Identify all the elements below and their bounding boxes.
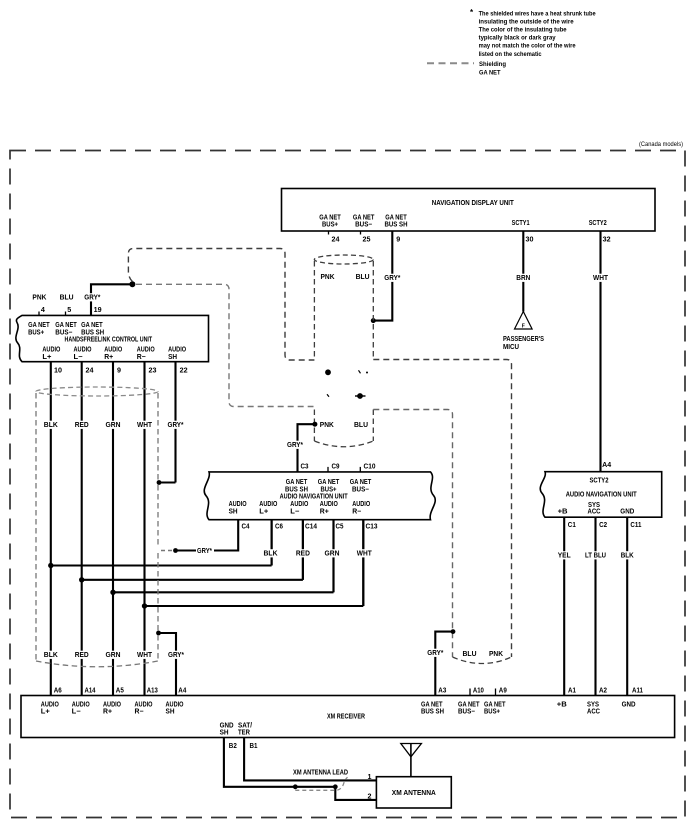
- svg-text:GA NET: GA NET: [350, 479, 372, 486]
- svg-text:TER: TER: [238, 729, 250, 736]
- svg-text:BUS+: BUS+: [484, 708, 500, 715]
- svg-text:GRN: GRN: [106, 422, 121, 429]
- svg-text:25: 25: [363, 237, 371, 244]
- svg-text:BLU: BLU: [463, 651, 477, 658]
- svg-text:L+: L+: [42, 354, 51, 361]
- svg-text:Shielding: Shielding: [479, 61, 506, 68]
- svg-text:C2: C2: [599, 522, 607, 529]
- svg-text:GA NET: GA NET: [28, 322, 50, 329]
- svg-text:AUDIO: AUDIO: [72, 701, 90, 708]
- svg-text:AUDIO: AUDIO: [259, 501, 277, 508]
- svg-text:AUDIO: AUDIO: [42, 346, 60, 353]
- svg-text:R−: R−: [352, 508, 361, 515]
- svg-text:5: 5: [67, 307, 71, 314]
- svg-text:C11: C11: [630, 522, 641, 529]
- svg-text:AUDIO: AUDIO: [168, 346, 186, 353]
- svg-text:A13: A13: [147, 688, 158, 695]
- svg-text:A14: A14: [85, 688, 96, 695]
- svg-text:SCTY2: SCTY2: [590, 477, 609, 484]
- svg-text:BUS−: BUS−: [352, 486, 369, 493]
- svg-text:L−: L−: [74, 354, 83, 361]
- svg-text:R−: R−: [135, 708, 144, 715]
- svg-text:GRY*: GRY*: [84, 295, 100, 302]
- svg-text:GA NET: GA NET: [479, 69, 501, 76]
- svg-text:32: 32: [603, 237, 611, 244]
- svg-text:BUS SH: BUS SH: [81, 330, 104, 337]
- svg-text:BUS+: BUS+: [28, 330, 44, 337]
- svg-text:AUDIO: AUDIO: [166, 701, 184, 708]
- svg-text:A6: A6: [54, 688, 62, 695]
- svg-text:1: 1: [368, 774, 372, 781]
- svg-text:GA NET: GA NET: [55, 322, 77, 329]
- svg-text:GRY*: GRY*: [168, 652, 184, 659]
- svg-text:AUDIO: AUDIO: [229, 501, 247, 508]
- svg-text:A11: A11: [632, 688, 643, 695]
- svg-text:AUDIO: AUDIO: [104, 346, 122, 353]
- svg-text:XM ANTENNA: XM ANTENNA: [392, 790, 436, 797]
- svg-text:AUDIO: AUDIO: [137, 346, 155, 353]
- svg-text:BUS+: BUS+: [321, 486, 337, 493]
- svg-text:AUDIO: AUDIO: [135, 701, 153, 708]
- svg-text:AUDIO: AUDIO: [352, 501, 370, 508]
- svg-text:30: 30: [526, 237, 534, 244]
- svg-text:SH: SH: [229, 508, 238, 515]
- svg-text:A4: A4: [178, 688, 186, 695]
- svg-text:GA NET: GA NET: [286, 479, 308, 486]
- svg-text:BLK: BLK: [44, 422, 58, 429]
- svg-text:RED: RED: [296, 551, 310, 558]
- svg-text:GND: GND: [622, 701, 636, 708]
- svg-text:GRY*: GRY*: [427, 650, 443, 657]
- svg-text:24: 24: [86, 368, 94, 375]
- svg-text:ACC: ACC: [588, 509, 601, 516]
- svg-text:C13: C13: [366, 524, 378, 531]
- svg-text:A2: A2: [599, 688, 607, 695]
- svg-text:PNK: PNK: [32, 295, 46, 302]
- svg-text:+B: +B: [557, 701, 567, 708]
- svg-text:A4: A4: [602, 462, 611, 469]
- svg-text:BUS+: BUS+: [322, 222, 338, 229]
- svg-text:L+: L+: [259, 508, 268, 515]
- svg-text:A10: A10: [473, 688, 484, 695]
- svg-text:SH: SH: [166, 708, 175, 715]
- svg-text:PNK: PNK: [489, 651, 503, 658]
- svg-text:9: 9: [117, 368, 121, 375]
- svg-text:C5: C5: [336, 524, 344, 531]
- svg-text:C10: C10: [364, 464, 376, 471]
- svg-text:BUS SH: BUS SH: [285, 486, 308, 493]
- svg-text:C6: C6: [275, 524, 283, 531]
- svg-text:L−: L−: [290, 508, 299, 515]
- svg-text:YEL: YEL: [558, 553, 572, 560]
- svg-text:C3: C3: [301, 464, 309, 471]
- svg-text:AUDIO: AUDIO: [320, 501, 338, 508]
- svg-text:C9: C9: [332, 464, 340, 471]
- svg-text:listed on the schematic: listed on the schematic: [479, 51, 542, 58]
- svg-text:A3: A3: [438, 688, 446, 695]
- svg-text:BRN: BRN: [516, 275, 530, 282]
- svg-text:GRY*: GRY*: [384, 275, 400, 282]
- svg-text:2: 2: [368, 794, 372, 801]
- svg-text:may not match the color of the: may not match the color of the wire: [479, 43, 576, 50]
- svg-text:L+: L+: [41, 708, 50, 715]
- svg-text:The shielded wires have a heat: The shielded wires have a heat shrunk tu…: [479, 11, 596, 18]
- svg-text:typically black or dark gray: typically black or dark gray: [479, 35, 556, 42]
- svg-text:GA NET: GA NET: [353, 215, 375, 222]
- svg-text:A1: A1: [568, 688, 576, 695]
- svg-text:The color of the insulating tu: The color of the insulating tube: [479, 27, 567, 34]
- svg-text:GND: GND: [620, 509, 634, 516]
- svg-text:SYS: SYS: [587, 701, 599, 708]
- svg-text:AUDIO: AUDIO: [41, 701, 59, 708]
- svg-text:HANDSFREELINK CONTROL UNIT: HANDSFREELINK CONTROL UNIT: [65, 337, 153, 344]
- svg-text:NAVIGATION DISPLAY UNIT: NAVIGATION DISPLAY UNIT: [432, 200, 515, 207]
- svg-text:R+: R+: [103, 708, 112, 715]
- svg-text:AUDIO NAVIGATION UNIT: AUDIO NAVIGATION UNIT: [280, 494, 349, 501]
- svg-text:GA NET: GA NET: [81, 322, 103, 329]
- svg-text:GA NET: GA NET: [318, 479, 340, 486]
- svg-text:GA NET: GA NET: [319, 215, 341, 222]
- svg-text:PNK: PNK: [320, 422, 334, 429]
- svg-text:F: F: [522, 324, 525, 330]
- svg-text:+B: +B: [558, 509, 568, 516]
- svg-text:AUDIO: AUDIO: [103, 701, 121, 708]
- svg-text:GA NET: GA NET: [458, 701, 480, 708]
- svg-text:XM ANTENNA LEAD: XM ANTENNA LEAD: [293, 769, 348, 776]
- svg-text:GA NET: GA NET: [385, 215, 407, 222]
- svg-text:PNK: PNK: [321, 274, 335, 281]
- svg-text:BLK: BLK: [264, 551, 278, 558]
- svg-text:BLU: BLU: [354, 422, 368, 429]
- svg-text:GRN: GRN: [106, 652, 121, 659]
- svg-text:AUDIO NAVIGATION UNIT: AUDIO NAVIGATION UNIT: [566, 492, 638, 499]
- svg-text:XM RECEIVER: XM RECEIVER: [327, 714, 365, 721]
- svg-text:SCTY1: SCTY1: [512, 220, 530, 227]
- svg-text:SH: SH: [220, 729, 229, 736]
- svg-text:GRN: GRN: [325, 551, 340, 558]
- svg-text:19: 19: [94, 307, 102, 314]
- svg-text:BLK: BLK: [621, 553, 634, 560]
- svg-text:22: 22: [180, 368, 188, 375]
- svg-text:BLK: BLK: [44, 652, 58, 659]
- svg-text:C4: C4: [242, 524, 250, 531]
- svg-text:BUS SH: BUS SH: [421, 708, 444, 715]
- svg-text:LT BLU: LT BLU: [585, 553, 606, 560]
- svg-text:GRY*: GRY*: [287, 442, 303, 449]
- svg-text:SCTY2: SCTY2: [589, 220, 607, 227]
- svg-text:(Canada models): (Canada models): [639, 141, 683, 148]
- svg-text:WHT: WHT: [137, 422, 153, 429]
- svg-text:BLU: BLU: [60, 295, 74, 302]
- svg-text:BUS−: BUS−: [55, 330, 72, 337]
- svg-text:R+: R+: [104, 354, 113, 361]
- svg-text:BUS SH: BUS SH: [385, 222, 408, 229]
- svg-text:B1: B1: [250, 743, 258, 750]
- svg-text:23: 23: [149, 368, 157, 375]
- svg-text:C1: C1: [568, 522, 576, 529]
- svg-text:WHT: WHT: [357, 551, 373, 558]
- svg-text:A9: A9: [499, 688, 507, 695]
- svg-text:GRY*: GRY*: [197, 548, 212, 555]
- svg-text:MICU: MICU: [503, 344, 519, 351]
- svg-text:WHT: WHT: [137, 652, 153, 659]
- svg-text:PASSENGER'S: PASSENGER'S: [503, 336, 544, 343]
- svg-text:BLU: BLU: [356, 274, 370, 281]
- svg-text:RED: RED: [75, 422, 89, 429]
- svg-text:AUDIO: AUDIO: [290, 501, 308, 508]
- svg-text:R+: R+: [320, 508, 329, 515]
- svg-text:GA NET: GA NET: [421, 701, 443, 708]
- svg-text:9: 9: [396, 237, 400, 244]
- svg-text:B2: B2: [229, 743, 237, 750]
- svg-text:R−: R−: [137, 354, 146, 361]
- svg-text:L−: L−: [72, 708, 81, 715]
- svg-text:GRY*: GRY*: [168, 422, 184, 429]
- svg-text:GA NET: GA NET: [484, 701, 506, 708]
- svg-text:BUS−: BUS−: [458, 708, 475, 715]
- svg-text:ACC: ACC: [587, 708, 600, 715]
- svg-text:A5: A5: [116, 688, 124, 695]
- svg-text:AUDIO: AUDIO: [74, 346, 92, 353]
- svg-text:RED: RED: [75, 652, 89, 659]
- svg-text:C14: C14: [305, 524, 317, 531]
- svg-text:insulating the outside of the: insulating the outside of the wire: [479, 19, 574, 26]
- svg-text:WHT: WHT: [593, 275, 609, 282]
- svg-text:4: 4: [41, 307, 45, 314]
- svg-text:10: 10: [54, 368, 62, 375]
- svg-text:24: 24: [332, 237, 340, 244]
- svg-text:SH: SH: [168, 354, 177, 361]
- svg-text:BUS−: BUS−: [355, 222, 372, 229]
